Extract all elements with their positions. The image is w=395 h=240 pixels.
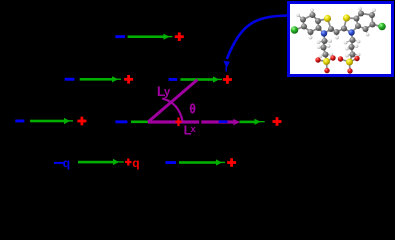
pair-right minus charge bbox=[169, 78, 178, 81]
chain-1 transition-dipole arrow bbox=[30, 118, 73, 124]
chain-1 minus charge bbox=[15, 120, 24, 123]
molecule inset box bbox=[289, 3, 393, 76]
component vector Lx (horizontal arrow) bbox=[148, 119, 240, 125]
chain row molecule 3 minus charge (on Lx line) bbox=[219, 120, 228, 123]
chain row molecule 3 plus charge bbox=[273, 117, 282, 126]
row4-right plus charge bbox=[227, 158, 236, 167]
pair-left minus charge bbox=[65, 78, 75, 81]
monomer minus charge bbox=[115, 35, 125, 38]
molecule atoms bbox=[291, 7, 386, 74]
point-charge dipole arrow (row 4) bbox=[78, 159, 124, 165]
gap notch in Lx line bbox=[199, 120, 201, 124]
row4-right transition-dipole arrow bbox=[179, 159, 225, 165]
point-charge dipole +q label (row 4) bbox=[125, 159, 131, 166]
svg-text:q: q bbox=[63, 156, 70, 170]
monomer transition-dipole arrow bbox=[128, 34, 173, 40]
pair-left transition-dipole arrow bbox=[80, 76, 121, 82]
point-charge dipole -q label (row 4) bbox=[54, 162, 63, 164]
svg-text:Ly: Ly bbox=[157, 83, 171, 99]
pair-left plus charge bbox=[124, 75, 133, 84]
separation vector Ly (diagonal) bbox=[148, 80, 197, 122]
pair-right transition-dipole arrow bbox=[180, 76, 222, 82]
svg-text:Lx: Lx bbox=[184, 123, 197, 138]
svg-text:q: q bbox=[132, 156, 139, 170]
pair-right plus charge bbox=[223, 75, 232, 84]
angle arc theta bbox=[162, 99, 182, 122]
chain row molecule 2 plus charge (over Lx) bbox=[175, 118, 181, 127]
row4-right minus charge bbox=[166, 161, 177, 164]
label theta bbox=[190, 104, 195, 112]
chain row molecule 2 (row 3) bbox=[115, 120, 127, 123]
callout arrowhead bbox=[223, 61, 230, 72]
callout curve from molecule box bbox=[227, 16, 289, 60]
molecule bonds bbox=[295, 9, 383, 72]
chain-1 plus charge bbox=[77, 117, 86, 126]
chain row molecule 3 arrow bbox=[240, 119, 265, 125]
monomer plus charge bbox=[175, 32, 184, 41]
